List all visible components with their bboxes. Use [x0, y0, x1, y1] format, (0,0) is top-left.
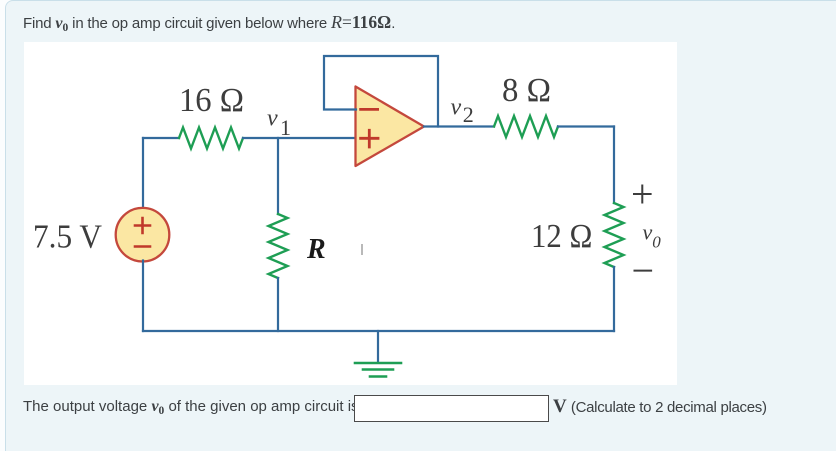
wire: op-amp output to 8-ohm resistor — [424, 125, 494, 127]
svg-text:8 Ω: 8 Ω — [502, 72, 551, 109]
wire: left vertical rail (top) — [142, 138, 144, 209]
svg-text:−: − — [632, 248, 655, 293]
voltage source 7.5V — [116, 208, 170, 262]
ground — [355, 363, 401, 377]
svg-text:1: 1 — [280, 115, 291, 140]
wire: feedback loop from output to inverting input — [324, 56, 438, 127]
resistor 8 ohm (zigzag) — [494, 116, 558, 137]
wire: v1 vertical branch down to resistor R — [277, 138, 279, 214]
wire: left vertical rail (bottom) — [142, 261, 144, 332]
svg-text:R: R — [306, 234, 326, 265]
svg-text:16 Ω: 16 Ω — [179, 82, 244, 119]
resistor 16 ohm (zigzag) — [179, 128, 243, 149]
svg-text:v: v — [643, 219, 653, 244]
wire: ground stem — [377, 331, 379, 362]
svg-text:2: 2 — [463, 102, 474, 127]
svg-text:v: v — [267, 106, 278, 132]
stray gray mark — [361, 245, 363, 254]
wire: from 16-ohm to op-amp + input through node v1 — [243, 137, 356, 139]
resistor R (vertical zigzag) — [269, 214, 288, 278]
wire: right vertical rail (bottom) — [613, 267, 615, 331]
svg-text:+: + — [631, 171, 654, 216]
wire: below R to bottom rail — [277, 278, 279, 331]
op-amp minus sign — [361, 108, 378, 111]
op-amp plus sign — [361, 130, 378, 147]
op-amp U1 — [356, 87, 425, 167]
wire: right vertical rail (top) — [613, 127, 615, 204]
wire: bottom rail — [143, 330, 614, 332]
svg-text:7.5 V: 7.5 V — [33, 219, 102, 256]
resistor 12 ohm (vertical zigzag) — [605, 203, 624, 267]
svg-text:12 Ω: 12 Ω — [531, 218, 592, 255]
wire: 8-ohm to right rail — [558, 125, 614, 127]
wire: top-left horizontal from left rail to 16-ohm resistor — [143, 137, 179, 139]
svg-text:v: v — [451, 95, 462, 121]
